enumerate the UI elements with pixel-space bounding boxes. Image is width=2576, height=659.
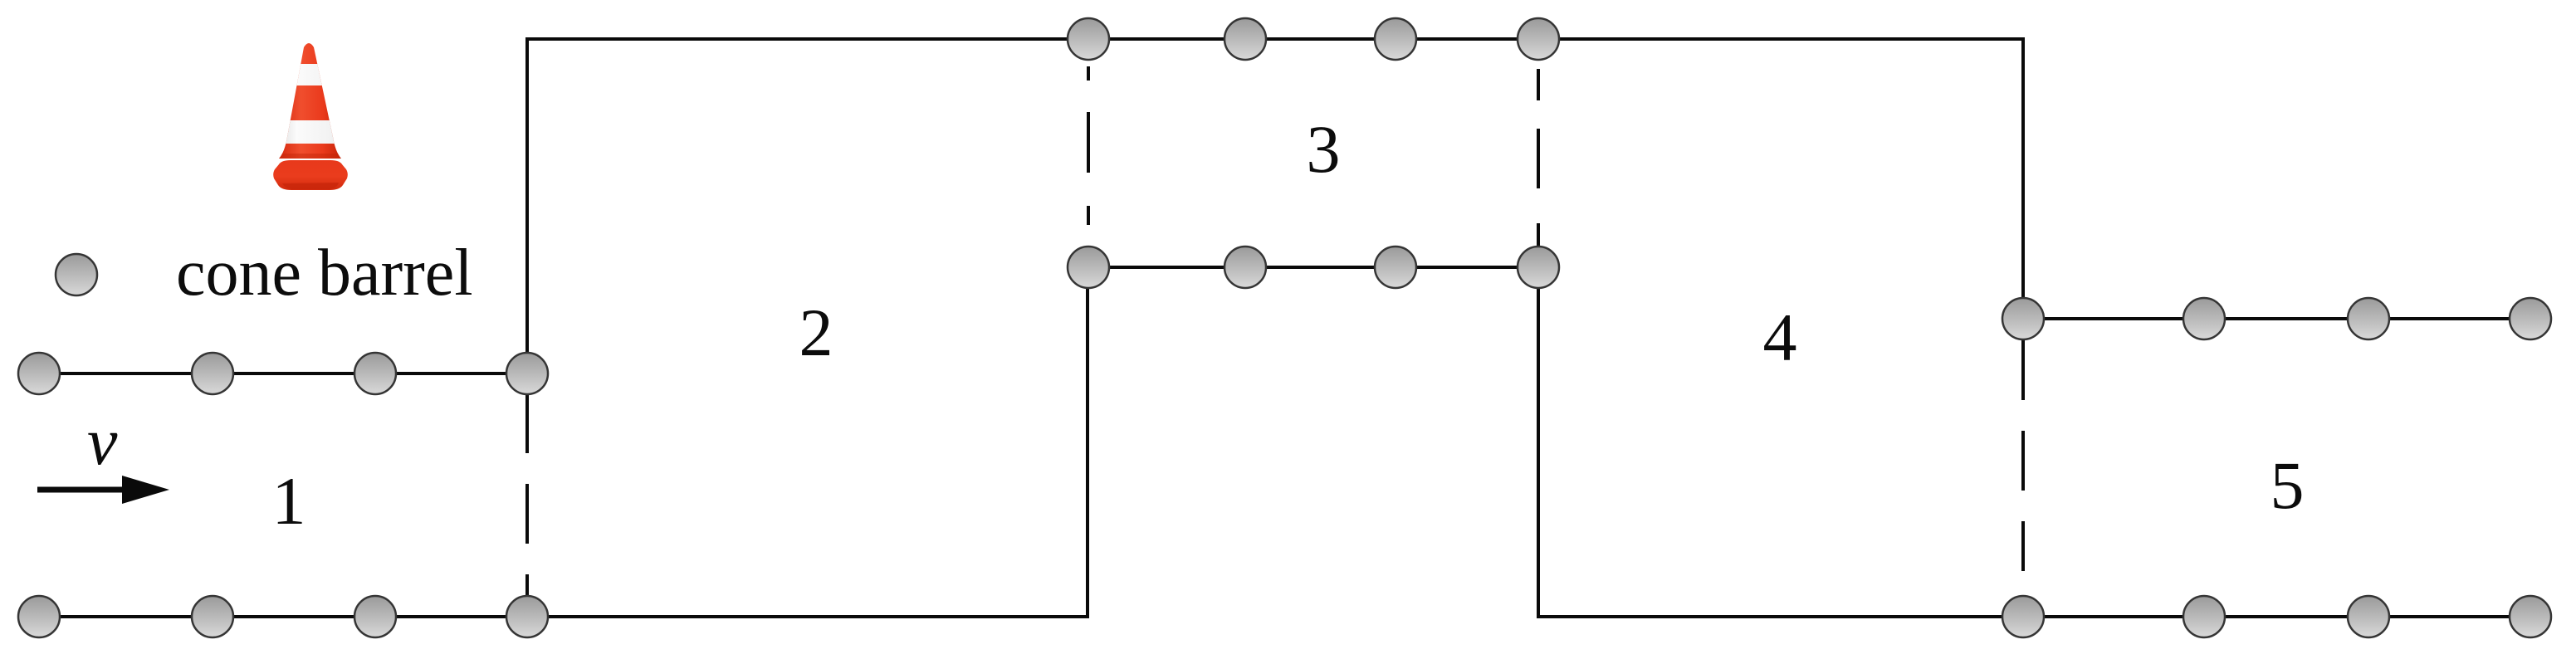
cone barrel bottomright-3	[2348, 596, 2389, 637]
wire: bottom boundary left part	[39, 615, 1088, 618]
legend cone barrel circle	[56, 254, 97, 295]
cone barrel bottomright-1	[2002, 596, 2044, 637]
cone barrel bottomleft-3	[354, 596, 396, 637]
cone barrel row5-3	[2348, 298, 2389, 339]
cone barrel bottomright-4	[2510, 596, 2551, 637]
cone barrel mid-1	[1068, 247, 1109, 288]
wire: right vertical boundary of section 2	[1086, 267, 1089, 618]
wire: right vertical boundary of section 4	[2021, 37, 2025, 319]
cone barrel top-1	[1068, 18, 1109, 60]
cone barrel row1-2	[192, 353, 233, 394]
svg-text:5: 5	[2270, 447, 2305, 523]
cone barrel row1-3	[354, 353, 396, 394]
cone barrel mid-4	[1518, 247, 1559, 288]
cone barrel top-2	[1224, 18, 1266, 60]
wire: dashed gate line between section 3 and 4	[1537, 69, 1540, 247]
wire: bottom boundary right part	[1538, 615, 2530, 618]
svg-text:1: 1	[272, 463, 306, 539]
cone barrel bottomleft-4	[506, 596, 548, 637]
cone barrel bottomleft-2	[192, 596, 233, 637]
cone barrel row5-1	[2002, 298, 2044, 339]
cone barrel bottomright-2	[2183, 596, 2225, 637]
svg-text:4: 4	[1763, 300, 1797, 375]
cone barrel row1-4	[506, 353, 548, 394]
wire: dashed lane-change line in section 5	[2021, 340, 2025, 571]
svg-text:3: 3	[1307, 111, 1341, 187]
svg-text:2: 2	[799, 295, 833, 370]
wire: section 5 upper cone line	[2023, 317, 2530, 320]
cone barrel bottomleft-1	[18, 596, 60, 637]
velocity arrow	[37, 476, 169, 504]
cone barrel row5-2	[2183, 298, 2225, 339]
wire: dashed lane-change line in section 1	[525, 393, 529, 595]
wire: left vertical boundary of section 4	[1537, 267, 1540, 618]
svg-text:v: v	[87, 403, 118, 479]
cone barrel mid-3	[1375, 247, 1416, 288]
wire: dashed gate line between section 2 and 3	[1087, 66, 1090, 225]
wire: top boundary horizontal line	[525, 37, 2023, 41]
cone barrel top-3	[1375, 18, 1416, 60]
cone barrel mid-2	[1224, 247, 1266, 288]
traffic cone icon	[273, 43, 350, 190]
cone barrel row5-4	[2510, 298, 2551, 339]
cone barrel row1-1	[18, 353, 60, 394]
wire: left vertical boundary of section 2	[525, 37, 529, 373]
wire: section 3 lower cone line	[1088, 266, 1538, 269]
svg-text:cone barrel: cone barrel	[176, 237, 473, 310]
wire: section 1 upper cone line	[39, 372, 527, 375]
cone barrel top-4	[1518, 18, 1559, 60]
